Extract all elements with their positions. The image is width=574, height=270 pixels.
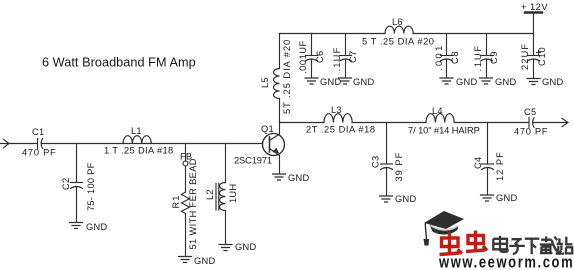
- svg-text:C4: C4: [473, 157, 483, 169]
- svg-text:L5: L5: [260, 77, 270, 88]
- svg-text:2SC1971: 2SC1971: [234, 156, 272, 166]
- capacitor C7: [345, 34, 347, 56]
- svg-text:C7: C7: [348, 51, 358, 63]
- svg-text:75- 100 PF: 75- 100 PF: [86, 162, 96, 211]
- svg-text:L6: L6: [392, 17, 403, 27]
- svg-text:GND: GND: [194, 256, 215, 266]
- watermark 电子下载站: [493, 236, 572, 255]
- inductor L1: [123, 136, 151, 144]
- ground L2: [219, 245, 232, 251]
- svg-text:Q1: Q1: [261, 124, 274, 134]
- svg-text:GND: GND: [288, 173, 309, 183]
- top rail wire: [280, 33, 386, 35]
- wire L3 to L4: [352, 122, 426, 124]
- svg-text:GND: GND: [86, 222, 107, 232]
- svg-text:12 PF: 12 PF: [495, 151, 505, 181]
- capacitor C6: [311, 34, 313, 56]
- svg-text:L2: L2: [205, 189, 215, 200]
- ground C4: [481, 195, 494, 201]
- node C3 tap: [386, 123, 388, 165]
- inductor L2: [220, 183, 226, 211]
- node FB: [185, 144, 187, 162]
- wire input to C1: [0, 143, 37, 145]
- ground Q1 emitter: [273, 174, 286, 180]
- top rail wire right: [413, 33, 534, 35]
- svg-text:GND: GND: [495, 77, 516, 87]
- capacitor C8: [446, 34, 448, 56]
- svg-text:C2: C2: [61, 178, 71, 190]
- svg-text:1UH: 1UH: [228, 184, 238, 203]
- wire L4 to C5: [454, 122, 528, 124]
- svg-text:L4: L4: [432, 106, 443, 116]
- svg-text:C1: C1: [32, 127, 44, 137]
- svg-text:C6: C6: [315, 51, 325, 63]
- node L2 tap: [225, 144, 227, 183]
- svg-text:51 WITH FER BEAD: 51 WITH FER BEAD: [188, 158, 198, 249]
- wire collector row: [280, 122, 325, 124]
- ground C7: [339, 78, 352, 84]
- svg-text:www.eeworm.com: www.eeworm.com: [438, 253, 574, 270]
- inductor L5: [274, 69, 280, 99]
- ground C3: [380, 196, 393, 202]
- svg-text:.1UF: .1UF: [332, 47, 342, 72]
- svg-text:R1: R1: [171, 195, 181, 209]
- svg-text:470 PF: 470 PF: [514, 127, 548, 137]
- ground C9: [480, 78, 493, 84]
- output wire and arrow: [533, 122, 567, 124]
- svg-text:L3: L3: [331, 105, 342, 115]
- wire collector node to L5: [279, 99, 281, 123]
- svg-text:C10: C10: [537, 47, 547, 66]
- input arrow: [4, 139, 10, 147]
- capacitor C4: [482, 163, 494, 165]
- svg-text:+ 12V: + 12V: [521, 2, 548, 12]
- svg-text:GND: GND: [353, 77, 374, 87]
- svg-text:L1: L1: [131, 126, 142, 136]
- svg-text:C3: C3: [371, 156, 381, 168]
- capacitor C1: [37, 139, 39, 149]
- watermark graduation cap: [424, 211, 465, 246]
- svg-text:22UF: 22UF: [520, 43, 530, 70]
- svg-text:C9: C9: [489, 51, 499, 64]
- node C4 tap: [487, 123, 489, 165]
- svg-text:6 Watt Broadband FM Amp: 6 Watt Broadband FM Amp: [42, 56, 196, 70]
- svg-text:GND: GND: [235, 242, 256, 252]
- svg-text:GND: GND: [456, 77, 477, 87]
- ground C2: [70, 223, 83, 229]
- svg-text:.1UF: .1UF: [473, 44, 483, 71]
- svg-text:1 T .25 DIA #18: 1 T .25 DIA #18: [104, 146, 174, 156]
- svg-text:GND: GND: [542, 77, 563, 87]
- svg-text:.001: .001: [434, 43, 444, 71]
- inductor L6: [385, 26, 413, 33]
- svg-text:470 PF: 470 PF: [22, 148, 56, 158]
- svg-text:C8: C8: [450, 51, 460, 64]
- svg-text:2T .25 DIA #18: 2T .25 DIA #18: [306, 125, 376, 135]
- svg-text:.001UF: .001UF: [298, 40, 308, 74]
- ground R1: [179, 257, 192, 263]
- wire C1 to Q1 base: [42, 143, 263, 145]
- svg-text:GND: GND: [395, 194, 416, 204]
- node C2 tap: [76, 144, 78, 183]
- svg-text:5T .25 DIA #20: 5T .25 DIA #20: [282, 39, 292, 114]
- svg-text:GND: GND: [496, 193, 517, 203]
- resistor R1: [182, 192, 190, 214]
- capacitor C2: [71, 182, 83, 184]
- svg-text:39 PF: 39 PF: [394, 152, 404, 182]
- watermark 虫虫 red characters: [440, 231, 488, 255]
- svg-text:5 T .25 DIA #20: 5 T .25 DIA #20: [362, 37, 435, 47]
- transistor Q1: [263, 134, 285, 156]
- ground C6: [305, 78, 318, 84]
- ground C8: [440, 78, 453, 84]
- ground C10: [527, 79, 540, 85]
- capacitor C3: [381, 163, 393, 165]
- svg-text:7/ 10" #14 HAIRP: 7/ 10" #14 HAIRP: [408, 126, 480, 136]
- capacitor C9: [486, 34, 488, 56]
- inductor L3: [324, 114, 352, 123]
- inductor L4: [426, 114, 454, 123]
- capacitor C10: [533, 34, 535, 56]
- svg-text:C5: C5: [524, 107, 536, 117]
- capacitor C5: [528, 118, 530, 128]
